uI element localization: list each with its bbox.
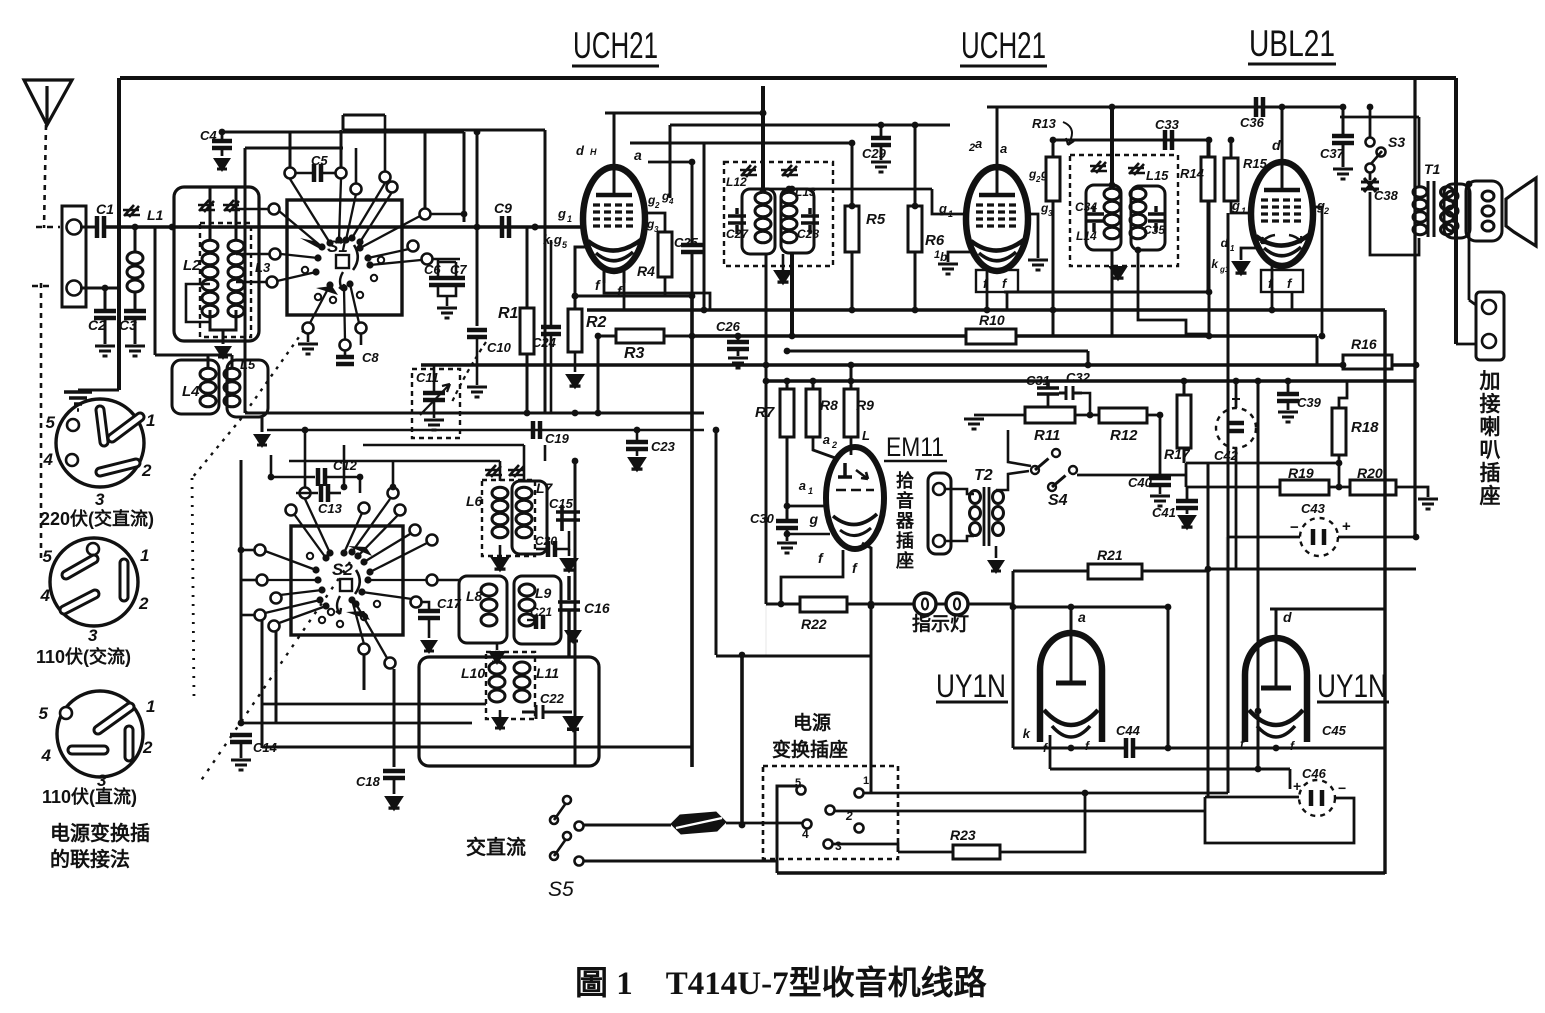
wire grid bus tube2	[763, 188, 932, 191]
wire	[1075, 414, 1099, 417]
ground L8	[488, 651, 506, 665]
wire left feed	[117, 78, 121, 288]
wire	[1013, 747, 1125, 750]
junction	[912, 203, 919, 210]
wire	[363, 655, 366, 690]
junction	[1336, 460, 1343, 467]
junction	[1285, 378, 1292, 385]
ground C23	[627, 457, 647, 472]
junction	[1255, 708, 1262, 715]
svg-text:S5: S5	[548, 878, 574, 901]
switch S1 arcs	[353, 245, 358, 270]
indicator lamp 1	[914, 593, 936, 615]
tube UBL21 (U3)	[1251, 162, 1313, 266]
wire a1 EM11	[787, 505, 826, 508]
junction	[532, 224, 539, 231]
wire	[1082, 393, 1090, 415]
svg-text:C26: C26	[716, 319, 741, 334]
svg-text:C34: C34	[1075, 200, 1097, 214]
resistor R11	[1025, 407, 1075, 423]
junction	[763, 362, 770, 369]
svg-text:R13: R13	[1032, 116, 1057, 131]
junction	[1068, 745, 1075, 752]
svg-text:4: 4	[40, 586, 51, 605]
inductor L8	[481, 584, 497, 596]
capacitor C44	[1126, 738, 1133, 758]
junction	[878, 122, 885, 129]
svg-text:C39: C39	[1297, 395, 1322, 410]
capacitor C9	[502, 216, 509, 238]
wire	[636, 449, 639, 456]
wire	[1183, 381, 1186, 395]
wire	[847, 603, 1013, 606]
svg-text:接: 接	[1480, 393, 1501, 416]
capacitor C28	[801, 208, 819, 234]
svg-text:a: a	[1000, 141, 1007, 156]
wire	[270, 455, 273, 477]
inductor L11	[514, 662, 530, 674]
svg-text:a: a	[634, 147, 642, 163]
wire	[446, 296, 449, 306]
wire	[526, 227, 529, 308]
svg-text:1: 1	[146, 697, 155, 716]
wire	[880, 145, 883, 160]
switch S1 terminal 11	[422, 254, 433, 265]
switch S1 terminal 2	[336, 168, 347, 179]
capacitor C36	[1256, 97, 1263, 117]
trimmer arrow C10	[452, 342, 486, 402]
UY1N underline 2	[1317, 701, 1389, 704]
wire	[974, 414, 1025, 417]
wire g3 down	[1027, 214, 1038, 258]
svg-text:R14: R14	[1180, 166, 1205, 181]
junction	[784, 378, 791, 385]
svg-text:C9: C9	[494, 200, 512, 216]
svg-text:g: g	[808, 511, 818, 527]
plug1 pin 4	[66, 454, 78, 466]
wire bus 2	[766, 379, 1414, 382]
wire	[1342, 107, 1345, 135]
junction	[1109, 182, 1116, 189]
svg-text:a: a	[975, 136, 982, 151]
switch S2 terminal 8	[359, 503, 370, 514]
capacitor C27	[728, 208, 746, 234]
coil box L8	[459, 576, 507, 643]
trimmer arrow C11	[420, 384, 450, 415]
wire	[1004, 291, 1209, 294]
terminal ant 2	[67, 281, 82, 296]
plug1 slot b	[112, 417, 140, 438]
ground R2	[565, 374, 585, 389]
wire	[786, 528, 789, 541]
wire	[550, 240, 553, 326]
junction	[701, 307, 708, 314]
capacitor C34	[1086, 206, 1104, 232]
wire	[1134, 747, 1385, 750]
wire	[636, 430, 639, 441]
resistor R1	[520, 308, 534, 354]
wire	[556, 531, 569, 549]
socket pin 4	[803, 820, 812, 829]
plug3 slot a	[98, 707, 130, 730]
ground T2	[987, 560, 1005, 574]
wire	[716, 655, 871, 658]
svg-text:C11: C11	[416, 370, 439, 385]
junction	[1279, 104, 1286, 111]
wire	[499, 710, 502, 717]
resistor R6	[908, 206, 922, 252]
S3 contact 2	[1366, 164, 1375, 173]
junction	[634, 427, 641, 434]
wire coil bottoms	[210, 310, 236, 330]
T2 secondary	[993, 491, 1004, 504]
junction	[760, 187, 767, 194]
switch S1 terminal 4	[351, 184, 362, 195]
capacitor C6	[429, 278, 447, 285]
wire	[1006, 292, 1009, 310]
junction	[789, 186, 796, 193]
ground C22	[562, 716, 584, 733]
svg-text:1: 1	[863, 775, 869, 787]
switch S2 small contacts	[319, 617, 325, 623]
wire	[664, 335, 692, 338]
wire	[433, 400, 436, 418]
svg-text:C10: C10	[487, 340, 512, 355]
junction	[302, 427, 309, 434]
EM11 underline	[884, 460, 947, 463]
wire	[597, 336, 600, 413]
junction	[341, 484, 348, 491]
junction	[868, 601, 875, 608]
svg-text:a: a	[799, 478, 806, 493]
junction	[778, 601, 785, 608]
capacitor C11	[423, 393, 445, 400]
svg-text:R12: R12	[1110, 427, 1138, 444]
junction	[735, 333, 742, 340]
wire	[221, 148, 224, 156]
svg-text:R2: R2	[586, 314, 607, 331]
wire	[207, 355, 210, 368]
wire R21 bus	[1013, 570, 1208, 573]
svg-text:d: d	[576, 143, 585, 158]
junction	[1255, 766, 1262, 773]
wire	[1316, 336, 1319, 365]
svg-text:R3: R3	[624, 345, 645, 362]
wire	[790, 253, 794, 336]
plug diagram 220V	[56, 399, 144, 487]
svg-text:C37: C37	[1320, 146, 1345, 161]
wire grid bus tube1	[104, 225, 582, 228]
svg-text:L: L	[862, 428, 870, 443]
svg-text:4: 4	[668, 197, 674, 206]
svg-text:220伏(交直流): 220伏(交直流)	[40, 508, 154, 529]
svg-text:C22: C22	[540, 691, 565, 706]
wire pin1 bus	[864, 792, 1228, 795]
svg-text:1: 1	[808, 486, 813, 496]
tube UY1N #2 (U5)	[1245, 638, 1307, 742]
junction	[849, 307, 856, 314]
svg-text:S2: S2	[332, 560, 353, 579]
junction	[868, 603, 875, 610]
svg-text:R11: R11	[1034, 427, 1060, 444]
svg-text:R18: R18	[1351, 419, 1379, 436]
wire	[1329, 486, 1350, 489]
socket pin 1	[933, 483, 945, 495]
wire	[261, 417, 264, 432]
wire dashed down left edge	[40, 283, 43, 560]
transformer T1	[1428, 181, 1434, 237]
speaker coupling coil	[1446, 191, 1458, 201]
junction	[572, 410, 579, 417]
wire	[765, 604, 767, 655]
wire to C46	[1289, 769, 1292, 789]
wire	[304, 430, 307, 487]
svg-text:C4: C4	[200, 128, 217, 143]
junction	[1010, 604, 1017, 611]
junction	[1050, 137, 1057, 144]
junction	[912, 122, 919, 129]
ground antenna	[64, 392, 92, 410]
junction	[848, 378, 855, 385]
svg-text:R8: R8	[820, 397, 838, 413]
svg-text:3: 3	[835, 839, 842, 853]
junction	[713, 427, 720, 434]
ground C6/C7	[437, 308, 457, 318]
junction	[572, 293, 579, 300]
speaker horn	[1506, 178, 1536, 246]
capacitor C5	[314, 164, 321, 182]
svg-text:−: −	[1290, 519, 1299, 536]
wire	[1369, 107, 1372, 138]
inductor L1	[134, 227, 137, 252]
capacitor C30	[776, 521, 798, 528]
ground C3	[125, 346, 145, 356]
wire	[262, 703, 486, 706]
wire AVC bus	[267, 429, 704, 432]
svg-text:+: +	[1293, 778, 1301, 794]
wire	[786, 381, 789, 389]
plug diagram 110V AC	[50, 538, 138, 626]
terminal ant 1	[67, 220, 82, 235]
resistor R18	[1332, 408, 1346, 455]
capacitor C14	[230, 735, 252, 742]
wire	[343, 445, 346, 490]
svg-text:T2: T2	[974, 467, 993, 484]
svg-text:4: 4	[43, 450, 54, 469]
svg-text:座: 座	[1480, 484, 1501, 508]
capacitor C8	[336, 357, 354, 364]
tube2 f box	[976, 270, 1018, 292]
svg-text:1: 1	[948, 209, 953, 219]
wire	[240, 742, 243, 758]
wire	[176, 354, 232, 357]
wire	[241, 549, 254, 552]
svg-text:k,g: k,g	[543, 232, 562, 247]
wire box right	[1167, 607, 1170, 748]
wire top border	[120, 76, 1456, 80]
wire	[1207, 569, 1209, 797]
wire AVC bus left	[245, 412, 704, 415]
wire long vertical	[690, 296, 694, 767]
svg-text:C14: C14	[253, 740, 278, 755]
coil box L7	[512, 481, 547, 554]
junction	[132, 224, 139, 231]
switch S2 terminal 16	[385, 658, 396, 669]
svg-text:C38: C38	[1374, 188, 1399, 203]
svg-text:C16: C16	[584, 600, 610, 616]
svg-text:的联接法: 的联接法	[50, 847, 130, 871]
junction	[1269, 307, 1276, 314]
svg-text:b: b	[940, 250, 947, 264]
wire	[1047, 394, 1050, 406]
plug1 slot c	[100, 463, 136, 472]
wire	[598, 335, 616, 338]
wire	[430, 213, 464, 216]
wire pin2 bus	[835, 810, 1205, 813]
ground C26	[728, 358, 748, 368]
wire	[766, 603, 800, 606]
junction	[849, 140, 856, 147]
wire	[1207, 140, 1210, 157]
switch S1 terminal 3	[380, 172, 391, 183]
coil box L13	[781, 189, 814, 253]
coil screen dashed box	[200, 223, 251, 337]
switch S2 terminal 9	[388, 488, 399, 499]
plug2 slot b	[119, 563, 130, 597]
switch S1 terminal 9	[420, 209, 431, 220]
wire plate bus to T1	[1340, 116, 1417, 119]
junction	[739, 652, 746, 659]
wire	[236, 253, 269, 256]
wire box2 top	[1270, 608, 1385, 611]
dashed box L10/L11	[486, 652, 535, 719]
transformer T2	[984, 487, 989, 546]
svg-text:R4: R4	[637, 263, 655, 279]
wire	[914, 252, 917, 310]
wire	[765, 253, 768, 351]
wire	[1235, 448, 1238, 569]
svg-text:L5: L5	[240, 357, 256, 372]
svg-text:d: d	[1272, 137, 1281, 153]
resistor R21	[1088, 564, 1142, 579]
wire g EM11	[787, 533, 830, 536]
wire	[235, 187, 238, 241]
wire	[1338, 536, 1416, 539]
wire	[1235, 381, 1238, 408]
wire	[428, 618, 431, 638]
terminal	[563, 832, 571, 840]
capacitor C31	[1037, 381, 1059, 394]
wire box top	[1013, 606, 1168, 609]
svg-text:C23: C23	[651, 439, 676, 454]
svg-text:UCH21: UCH21	[573, 25, 658, 66]
wire	[393, 778, 396, 794]
wire	[275, 632, 278, 723]
svg-text:拾: 拾	[896, 470, 914, 491]
wire anode tube1	[613, 113, 616, 167]
svg-text:C5: C5	[311, 153, 328, 168]
switch S1 terminal 5	[387, 182, 398, 193]
junction	[461, 211, 468, 218]
junction	[1085, 362, 1092, 369]
junction	[1206, 333, 1213, 340]
svg-text:L11: L11	[536, 665, 559, 681]
inductor L9	[519, 584, 535, 596]
junction	[102, 285, 109, 292]
wire	[737, 336, 740, 341]
capacitor C10	[467, 330, 487, 337]
wire	[646, 213, 665, 232]
ground L2/L3	[214, 346, 232, 360]
tube3 f box	[1261, 270, 1303, 292]
ground C29	[871, 162, 891, 172]
switch S1 terminal 1	[285, 168, 296, 179]
junction	[1367, 104, 1374, 111]
wire	[240, 460, 243, 723]
wire	[1230, 140, 1233, 158]
switch S1 wiper marks	[300, 238, 322, 250]
wire	[1159, 485, 1162, 494]
IF2 dashed box	[1070, 155, 1178, 266]
svg-text:R21: R21	[1097, 547, 1123, 563]
plug2 slot c	[64, 594, 95, 610]
wire	[574, 352, 577, 372]
switch S2 terminal 5	[269, 621, 280, 632]
junction	[219, 129, 226, 136]
switch S2 arcs	[355, 570, 360, 594]
wire	[544, 445, 547, 461]
ground C21	[564, 630, 582, 644]
svg-text:C44: C44	[1116, 723, 1141, 738]
svg-text:R10: R10	[979, 312, 1005, 328]
svg-text:L7: L7	[536, 480, 554, 496]
svg-text:UY1N: UY1N	[936, 668, 1006, 704]
wire	[1207, 201, 1210, 292]
wire	[1291, 292, 1294, 310]
ground L6	[490, 557, 510, 572]
wire k,g3 tube1	[575, 247, 585, 309]
switch S2 terminal 12	[427, 535, 438, 546]
wire	[1111, 250, 1114, 336]
switch S2 terminal 3	[271, 593, 282, 604]
wire	[455, 262, 458, 276]
junction	[1165, 745, 1172, 752]
inductor L4	[200, 368, 216, 380]
wire L2 tap	[186, 284, 210, 322]
core mark	[508, 465, 525, 477]
antenna	[24, 80, 72, 125]
svg-text:座: 座	[896, 550, 914, 571]
terminal	[563, 796, 571, 804]
junction	[784, 348, 791, 355]
svg-text:C29: C29	[862, 146, 887, 161]
svg-text:C25: C25	[674, 235, 699, 250]
svg-text:C35: C35	[1143, 223, 1165, 237]
antenna coil box	[174, 187, 259, 341]
wire f lead	[623, 269, 626, 283]
svg-text:2: 2	[654, 201, 660, 210]
inductor L6	[492, 487, 508, 499]
svg-text:UCH21: UCH21	[961, 25, 1046, 66]
wire	[648, 161, 692, 164]
switch S2 terminal 13	[427, 575, 438, 586]
resistor R10	[966, 329, 1016, 344]
terminal	[550, 816, 558, 824]
socket pin 5	[797, 786, 806, 795]
ground L4/L5	[253, 434, 271, 448]
wire	[343, 114, 385, 117]
wire	[437, 579, 461, 582]
